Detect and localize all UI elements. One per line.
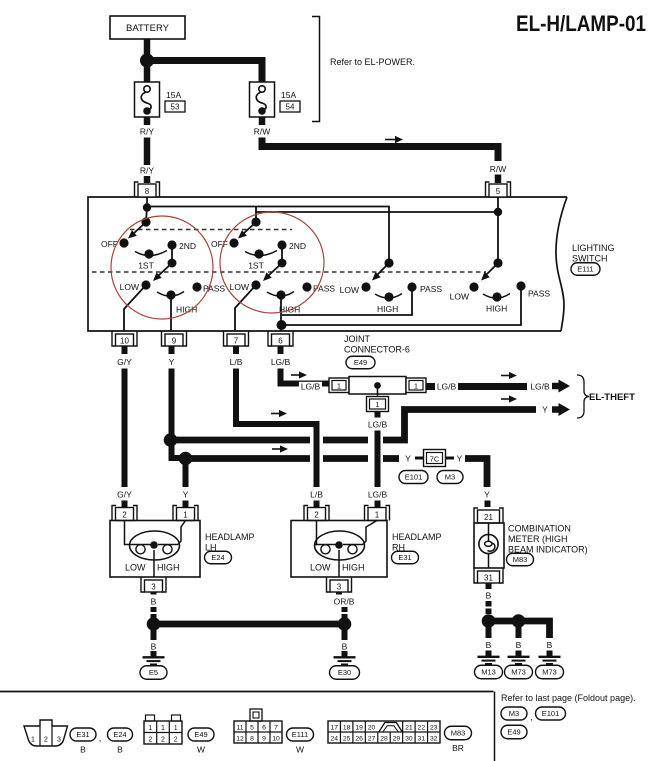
wire group 1 LOW to connector 10	[124, 285, 146, 331]
svg-text:2: 2	[174, 737, 178, 744]
legend comma 1	[99, 733, 102, 743]
joint connector U1 left pin 1	[329, 378, 349, 393]
svg-text:1: 1	[148, 725, 152, 732]
label L/B upper	[230, 357, 243, 367]
svg-text:15A: 15A	[281, 90, 296, 100]
svg-text:PASS: PASS	[420, 284, 442, 294]
label HEADLAMP RH	[392, 532, 442, 553]
svg-text:20: 20	[368, 725, 376, 732]
svg-text:G/Y: G/Y	[117, 357, 132, 367]
wire pin 3 stub LH	[151, 592, 157, 595]
oval M83 meter	[507, 553, 534, 566]
svg-text:9: 9	[262, 736, 266, 743]
svg-text:E31: E31	[76, 730, 89, 739]
connector 7C	[424, 450, 446, 467]
label R/Y lower	[140, 166, 155, 176]
svg-text:Y: Y	[405, 454, 411, 464]
svg-text:22: 22	[418, 725, 426, 732]
wire M73a stub	[516, 625, 522, 638]
wire LG/B stub to pin 1	[375, 501, 381, 508]
legend comma 2	[530, 712, 533, 722]
svg-text:Refer to EL-POWER.: Refer to EL-POWER.	[330, 57, 415, 67]
svg-text:,: ,	[99, 733, 102, 743]
node meter ground junction 2	[512, 614, 526, 628]
label R/Y upper	[140, 127, 155, 137]
switch group 4 low set	[450, 281, 551, 313]
svg-text:B: B	[80, 745, 86, 755]
off-page arrow Y	[552, 403, 570, 416]
arrow on L/B run	[271, 410, 287, 417]
wire RH pin 2 to filament LOW	[315, 521, 317, 545]
svg-text:2: 2	[314, 511, 319, 520]
switch group 2 rotary	[211, 217, 306, 270]
svg-text:1: 1	[375, 400, 379, 409]
svg-text:LOW: LOW	[340, 285, 359, 295]
headlamp RH box	[291, 521, 387, 578]
svg-text:15A: 15A	[166, 90, 181, 100]
wire B dashes RH	[342, 607, 348, 619]
junction node battery feed	[140, 54, 154, 68]
svg-text:6: 6	[278, 337, 283, 346]
svg-text:SWITCH: SWITCH	[572, 254, 608, 264]
svg-text:2: 2	[161, 737, 165, 744]
wire group 4 PASS to connector 6 bus	[284, 289, 521, 325]
wire L/B stub to headlamp RH pin 2	[314, 501, 320, 508]
svg-text:29: 29	[393, 736, 401, 743]
svg-text:2: 2	[122, 511, 127, 520]
oval E49 legend right	[501, 725, 527, 739]
node PASS bus junction	[277, 320, 287, 330]
label B E24	[117, 745, 123, 755]
label HIGH RH	[342, 563, 365, 573]
connector 7	[224, 331, 249, 346]
svg-text:2ND: 2ND	[289, 241, 306, 251]
svg-text:LG/B: LG/B	[437, 382, 457, 392]
wire B dashes LH	[151, 607, 157, 619]
oval E101	[399, 471, 428, 484]
headlamp LH pin 3	[141, 577, 166, 592]
combination meter box	[474, 523, 504, 568]
lighting switch box outline	[88, 197, 567, 331]
svg-text:M83: M83	[513, 555, 528, 564]
svg-text:7: 7	[274, 725, 278, 732]
node meter ground junction 1	[482, 614, 496, 628]
svg-text:24: 24	[330, 736, 338, 743]
wire R/Y stub to connector 8	[144, 176, 151, 183]
label G/Y lower	[117, 490, 132, 500]
svg-text:R/Y: R/Y	[140, 127, 155, 137]
connector 6	[268, 331, 293, 346]
svg-text:Refer to last page (Foldout pa: Refer to last page (Foldout page).	[501, 693, 636, 703]
label EL-THEFT	[589, 392, 635, 403]
svg-text:1: 1	[183, 511, 188, 520]
combination meter bulb	[479, 523, 498, 568]
svg-text:17: 17	[330, 725, 338, 732]
fuse 53 15A	[135, 82, 186, 117]
svg-text:2: 2	[44, 737, 48, 744]
arrow on R/W run	[385, 136, 403, 143]
legend top rule	[0, 691, 494, 693]
wire group 1 feed stub	[146, 207, 147, 222]
svg-text:B: B	[516, 640, 522, 650]
node ground bus RH	[338, 617, 352, 631]
svg-text:53: 53	[171, 103, 180, 112]
legend connector M83 face	[328, 721, 440, 743]
arrow on LG/B run	[291, 371, 307, 378]
title EL-H/LAMP-01	[516, 11, 646, 36]
svg-text:Y: Y	[484, 490, 490, 500]
svg-text:54: 54	[286, 103, 295, 112]
svg-text:BATTERY: BATTERY	[126, 23, 170, 34]
svg-text:E49: E49	[507, 728, 520, 737]
svg-text:2: 2	[148, 737, 152, 744]
switch group 4 contact	[478, 258, 502, 283]
headlamp RH bulb	[315, 531, 365, 560]
wire R/W run to right	[262, 138, 498, 162]
label OR/B RH	[334, 597, 355, 607]
arrow on Y meter branch	[272, 445, 288, 452]
ground M73 first	[505, 651, 533, 679]
oval E101 legend	[536, 707, 566, 720]
svg-text:LG/B: LG/B	[301, 382, 321, 392]
note refer to EL-POWER	[330, 57, 415, 67]
svg-text:31: 31	[484, 574, 493, 583]
note refer to last page	[501, 693, 636, 703]
label R/W right	[490, 164, 507, 174]
bracket refer to EL-POWER	[312, 17, 320, 122]
fuse 54 15A	[250, 82, 301, 117]
oval E31 headlamp RH	[392, 551, 419, 564]
label BR M83	[452, 743, 464, 753]
wire fuse 53 lower stub	[144, 117, 151, 125]
highlight ellipse group 1	[111, 216, 213, 319]
switch group 2 low set	[230, 280, 336, 314]
oval E111 switch	[571, 263, 600, 276]
node Y branch to EL-THEFT	[164, 433, 178, 447]
svg-text:LOW: LOW	[120, 282, 139, 292]
label LG/B at EL-THEFT	[530, 382, 550, 392]
svg-text:EL-THEFT: EL-THEFT	[589, 392, 635, 403]
svg-text:10: 10	[120, 337, 129, 346]
legend connector E111 face	[234, 709, 282, 743]
wire connector 9 stub	[169, 346, 175, 354]
label Y lower	[183, 490, 189, 500]
switch group 1 rotary	[101, 217, 196, 270]
oval E31 legend	[70, 728, 96, 741]
svg-text:E5: E5	[149, 668, 158, 677]
svg-text:E101: E101	[405, 473, 423, 482]
svg-text:6: 6	[262, 725, 266, 732]
svg-text:1: 1	[414, 382, 418, 391]
legend connector E31 face	[24, 720, 68, 746]
svg-text:LOW: LOW	[125, 563, 146, 573]
wire bus A to group 3	[147, 207, 389, 262]
wire ground bus headlamps	[154, 621, 345, 628]
label B meter	[486, 591, 492, 601]
svg-text:B: B	[151, 642, 157, 652]
wire fuse 54 lower stub	[259, 117, 266, 125]
svg-text:Y: Y	[457, 454, 463, 464]
wire Y jog	[172, 440, 186, 458]
wire Y to headlamp LH pin 1	[183, 459, 189, 488]
wire G/Y down	[122, 369, 128, 488]
wire group 1 HIGH to connector 9	[170, 297, 172, 331]
label B M73b	[547, 640, 553, 650]
svg-text:B: B	[117, 745, 123, 755]
svg-text:LG/B: LG/B	[368, 490, 388, 500]
svg-text:2ND: 2ND	[179, 241, 196, 251]
svg-text:LG/B: LG/B	[530, 382, 550, 392]
ground M73 second	[536, 651, 564, 679]
svg-text:PASS: PASS	[528, 289, 550, 299]
svg-text:HIGH: HIGH	[279, 305, 300, 315]
svg-text:12: 12	[236, 736, 244, 743]
legend divider	[494, 692, 496, 761]
svg-text:Y: Y	[169, 357, 175, 367]
svg-text:11: 11	[236, 725, 243, 732]
headlamp LH bulb	[130, 531, 180, 560]
label B E31	[80, 745, 86, 755]
svg-text:B: B	[151, 597, 157, 607]
off-page arrow LG/B	[552, 380, 570, 393]
oval E24 headlamp LH	[205, 551, 232, 564]
joint connector U1 body	[349, 377, 406, 395]
svg-text:1: 1	[375, 511, 380, 520]
label B LH	[151, 597, 157, 607]
svg-text:E111: E111	[577, 265, 593, 274]
connector 10	[112, 331, 137, 346]
wire battery to junction	[144, 39, 151, 60]
node switch feed junction	[143, 203, 151, 211]
svg-text:E30: E30	[338, 668, 351, 677]
svg-text:HEADLAMP: HEADLAMP	[392, 532, 442, 542]
legend connector E49 face	[144, 715, 182, 744]
oval M3 legend	[501, 707, 527, 720]
svg-text:LIGHTING: LIGHTING	[572, 243, 615, 253]
ground E30	[330, 651, 360, 679]
svg-text:M73: M73	[542, 668, 557, 677]
wire Y down	[169, 369, 175, 441]
label LG/B below joint	[368, 420, 388, 430]
label L/B lower	[310, 490, 323, 500]
svg-text:LG/B: LG/B	[368, 420, 388, 430]
svg-text:8: 8	[250, 736, 254, 743]
svg-text:L/B: L/B	[310, 490, 323, 500]
svg-text:METER (HIGH: METER (HIGH	[508, 534, 568, 544]
svg-text:B: B	[547, 640, 553, 650]
combination meter pin 31	[474, 568, 503, 583]
wire M13 stub	[486, 625, 492, 638]
svg-text:E49: E49	[194, 730, 207, 739]
svg-text:26: 26	[355, 736, 363, 743]
svg-text:1: 1	[174, 725, 178, 732]
switch group 1 link 2ND to low set	[150, 249, 176, 284]
svg-text:5: 5	[250, 725, 254, 732]
svg-text:19: 19	[355, 725, 363, 732]
label LOW RH	[310, 563, 331, 573]
connector 8	[135, 182, 160, 197]
wire group 3 PASS to connector 6 bus	[282, 290, 412, 315]
wire stub into 7C	[415, 457, 424, 460]
wire group 2 HIGH to connector 6	[280, 297, 282, 331]
switch group 3 low set	[340, 282, 443, 314]
wire Y stub to pin 1	[183, 501, 189, 508]
oval E49 joint connector	[346, 356, 375, 369]
svg-text:1: 1	[31, 737, 35, 744]
label G/Y upper	[117, 357, 132, 367]
dashed line lower	[92, 271, 486, 273]
svg-text:32: 32	[430, 736, 438, 743]
wire connector 5 into box	[497, 197, 499, 261]
svg-text:B: B	[486, 640, 492, 650]
svg-text:G/Y: G/Y	[117, 490, 132, 500]
svg-text:3: 3	[57, 737, 61, 744]
label HEADLAMP LH	[205, 532, 255, 553]
svg-text:28: 28	[380, 736, 388, 743]
joint connector U1 right pin 1	[406, 378, 426, 393]
svg-text:E49: E49	[354, 358, 367, 367]
svg-text:LOW: LOW	[230, 282, 249, 292]
wire pin 1 to filament HIGH	[178, 521, 186, 545]
svg-text:HIGH: HIGH	[486, 304, 507, 314]
wire Y branch to meter line	[187, 455, 399, 462]
headlamp LH pin 2	[112, 506, 137, 521]
connector 9	[162, 331, 187, 346]
svg-text:1: 1	[161, 725, 165, 732]
wire junction to fuse 54 feed	[150, 61, 262, 83]
wire L/B down and right	[236, 369, 317, 488]
label Y at meter	[484, 490, 490, 500]
wire pin 2 to filament LOW	[125, 521, 131, 545]
ground M13	[475, 651, 503, 679]
oval E49 legend	[188, 728, 214, 741]
svg-text:30: 30	[405, 736, 413, 743]
headlamp RH pin 1	[365, 506, 390, 521]
svg-text:E24: E24	[113, 730, 126, 739]
node joint connector center	[374, 382, 381, 389]
headlamp LH pin 1	[173, 506, 198, 521]
oval E24 legend	[108, 728, 133, 741]
svg-text:R/Y: R/Y	[140, 166, 155, 176]
wire RH ground stub	[342, 628, 348, 640]
oval E111 legend	[287, 728, 314, 741]
svg-text:18: 18	[343, 725, 351, 732]
label Y right of 7C	[457, 454, 463, 464]
battery B1	[110, 16, 185, 39]
svg-text:1: 1	[337, 382, 341, 391]
label JOINT CONNECTOR-6	[344, 334, 410, 355]
svg-text:3: 3	[337, 583, 342, 592]
svg-text:HIGH: HIGH	[377, 304, 398, 314]
wire stub out of 7C	[446, 457, 455, 460]
switch group 3 contact	[369, 258, 393, 283]
wire pin 3 stub RH	[336, 592, 342, 595]
label B M73a	[516, 640, 522, 650]
svg-text:EL-H/LAMP-01: EL-H/LAMP-01	[516, 11, 646, 36]
label Y at EL-THEFT	[542, 405, 548, 415]
headlamp LH box	[110, 521, 200, 578]
wire LG/B down and right to joint connector	[281, 369, 331, 384]
svg-text:B: B	[342, 642, 348, 652]
wire LG/B below joint connector	[375, 411, 381, 418]
svg-text:CONNECTOR-6: CONNECTOR-6	[344, 345, 410, 355]
label B ground LH	[151, 642, 157, 652]
wire R/Y segment	[144, 138, 151, 166]
wire bulb common to pin 3	[153, 550, 155, 577]
wire pin 31 stub	[486, 583, 492, 589]
brace EL-THEFT	[577, 375, 589, 418]
wire group 2 LOW to connector 7	[235, 285, 256, 331]
wire R/W stub to connector 5	[495, 175, 502, 184]
label W E49	[197, 745, 205, 755]
wire connector 6 stub	[278, 346, 284, 354]
oval M3	[437, 471, 463, 484]
headlamp RH pin 2	[304, 506, 329, 521]
svg-text:M13: M13	[481, 668, 496, 677]
wire connector 10 stub	[122, 346, 128, 354]
svg-text:B: B	[486, 591, 492, 601]
svg-text:LOW: LOW	[310, 563, 331, 573]
connector 5	[486, 182, 511, 197]
wire LH ground stub	[151, 628, 157, 640]
svg-text:LG/B: LG/B	[271, 357, 291, 367]
svg-text:,: ,	[530, 712, 533, 722]
switch group 1 low set	[120, 280, 226, 314]
wire connector 7 stub	[233, 346, 239, 354]
wire junction down to fuse 53	[144, 61, 151, 83]
svg-text:M73: M73	[511, 668, 526, 677]
svg-text:HIGH: HIGH	[342, 563, 365, 573]
svg-text:HIGH: HIGH	[157, 563, 180, 573]
svg-text:BR: BR	[452, 743, 464, 753]
label LOW LH	[125, 563, 146, 573]
svg-text:R/W: R/W	[254, 127, 271, 137]
label Y upper	[169, 357, 175, 367]
svg-text:JOINT: JOINT	[344, 334, 371, 344]
wire RH pin 1 to filament HIGH	[363, 521, 377, 545]
svg-text:R/W: R/W	[490, 164, 507, 174]
svg-text:1ST: 1ST	[138, 261, 154, 271]
wire joint center to bottom pin	[377, 386, 379, 398]
svg-text:Y: Y	[542, 405, 548, 415]
arrow on Y to EL-THEFT	[501, 395, 517, 402]
svg-text:8: 8	[145, 187, 150, 196]
wire bus B to group 4 feed	[256, 211, 498, 213]
node connector 5 feed	[494, 208, 502, 216]
wire connector 8 into box	[146, 197, 148, 207]
svg-text:W: W	[197, 745, 205, 755]
svg-text:E24: E24	[211, 553, 224, 562]
svg-text:21: 21	[484, 513, 493, 522]
svg-text:7: 7	[234, 337, 239, 346]
svg-text:10: 10	[272, 736, 280, 743]
label R/W left	[254, 127, 271, 137]
label W E111	[296, 745, 304, 755]
wire G/Y stub to headlamp LH pin 2	[122, 501, 128, 508]
svg-text:L/B: L/B	[230, 357, 243, 367]
svg-text:OR/B: OR/B	[334, 597, 355, 607]
wire Y to combination meter	[465, 459, 487, 488]
svg-text:M3: M3	[509, 709, 519, 718]
label Y left of 7C	[405, 454, 411, 464]
svg-text:25: 25	[343, 736, 351, 743]
highlight ellipse group 2	[220, 212, 324, 313]
label LG/B right of joint	[435, 382, 458, 392]
wire group 2 feed stub	[255, 207, 257, 223]
ground E5	[140, 651, 167, 679]
label LG/B upper	[271, 357, 291, 367]
label HIGH LH	[157, 563, 180, 573]
